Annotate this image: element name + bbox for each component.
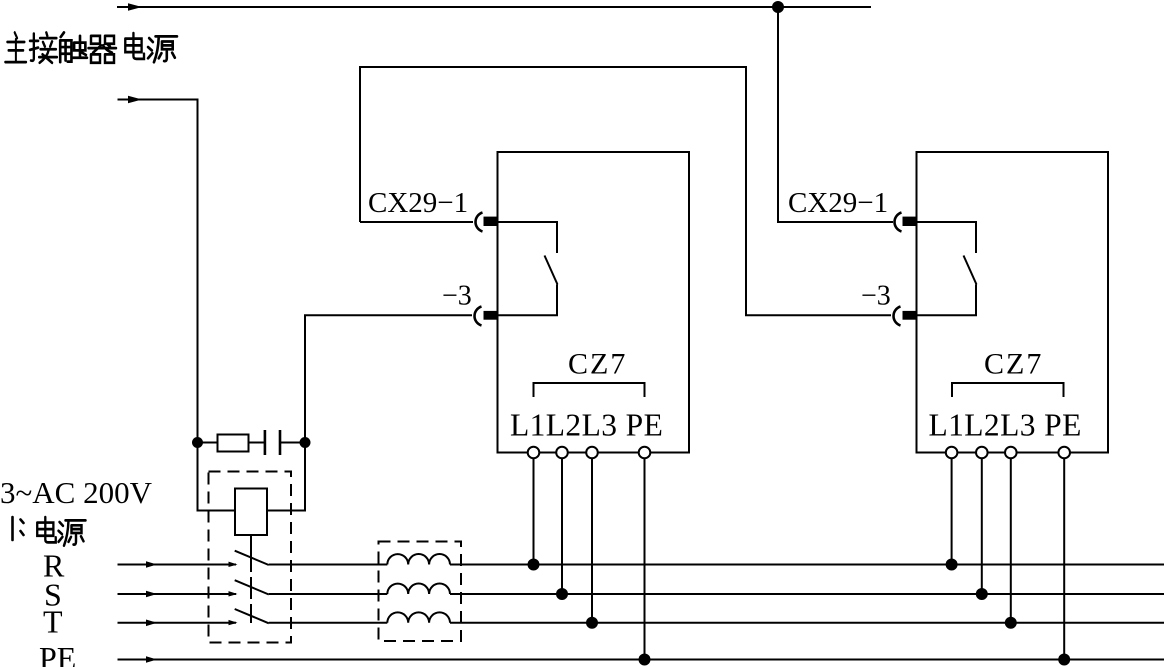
wire: unit2 L3 drop to T: [1010, 458, 1012, 623]
arrow on top control supply line: [128, 3, 142, 10]
contact blade S: [235, 580, 269, 594]
wire: unit2 PE drop to PE: [1063, 458, 1065, 659]
terminal circle L1 unit1: [528, 447, 540, 459]
unit 2 enclosure box: [917, 152, 1109, 453]
inductor T: [387, 612, 450, 622]
node: junction dot on top line: [772, 1, 784, 13]
terminal circle PE unit1: [639, 447, 651, 459]
svg-text:CZ7: CZ7: [984, 348, 1043, 381]
wire: second feed arrow line (to contactor coil branch): [118, 100, 198, 443]
wire: R phase right segment: [450, 564, 1164, 566]
terminal circle L3 unit2: [1005, 447, 1017, 459]
bracket over unit1 terminals: [534, 383, 645, 397]
wire: T between contactor and reactor: [269, 622, 388, 624]
terminal circle L2 unit2: [976, 447, 988, 459]
wire: unit2 internal bottom stub: [917, 285, 977, 316]
svg-text:3~AC 200V: 3~AC 200V: [0, 475, 153, 510]
inductor S: [387, 584, 450, 594]
wire: unit1 PE drop to PE: [644, 458, 646, 659]
capacitor plate right: [279, 430, 282, 455]
arrow feed T: [146, 620, 157, 627]
bracket over unit2 terminals: [952, 383, 1064, 397]
contact blade T: [235, 609, 269, 623]
connector pin (black) -3 unit1: [484, 311, 498, 320]
wire: unit1 L1 drop to R: [533, 458, 535, 564]
wire: capacitor to right dot: [280, 442, 305, 444]
wire: left branch down to coil: [198, 443, 236, 511]
unit 1 enclosure box: [498, 152, 690, 453]
wire: unit1 L2 drop to S: [561, 458, 563, 594]
connector socket bracket CX29-1 unit2: [895, 213, 902, 232]
wire: unit1 internal top stub: [498, 222, 558, 253]
wire: dot to resistor: [198, 442, 218, 444]
wire: R between contactor and reactor: [269, 564, 388, 566]
svg-text:CX29−1: CX29−1: [788, 187, 888, 219]
wire: T phase right segment: [450, 622, 1164, 624]
arrow feed S: [146, 591, 157, 598]
arrow contact R: [229, 562, 238, 567]
wire: S phase right segment: [450, 593, 1164, 595]
terminal circle PE unit2: [1058, 447, 1070, 459]
arrow contact T: [229, 620, 238, 625]
node dot unit1 L1-R: [528, 559, 540, 571]
node dot unit2 PE: [1058, 654, 1070, 666]
wire: resistor to capacitor: [249, 442, 265, 444]
svg-text:CZ7: CZ7: [568, 348, 627, 381]
arrow feed PE: [146, 656, 157, 663]
connector pin (black) -3 unit2: [903, 311, 917, 320]
inductor R: [387, 554, 450, 564]
node dot unit1 L2-S: [556, 588, 568, 600]
svg-text:CX29−1: CX29−1: [368, 187, 468, 219]
connector pin (black) CX29-1 unit1: [484, 217, 498, 226]
switch blade unit1: [545, 256, 558, 285]
arrow contact S: [229, 591, 238, 596]
wire: unit2 internal top stub: [917, 222, 977, 253]
arrow on second feed line: [128, 96, 142, 103]
wire: from top-line junction down to CX29-1 of right unit: [778, 7, 893, 222]
wire: S between contactor and reactor: [269, 593, 388, 595]
svg-text:PE: PE: [39, 640, 76, 667]
wire: R phase line left segment: [118, 564, 237, 566]
svg-text:T: T: [43, 604, 63, 640]
node dot unit2 L3-T: [1005, 617, 1017, 629]
mechanical linkage (dashed): [250, 550, 252, 623]
node dot RC right: [300, 437, 311, 448]
wire: -3 lead from contactor branch to unit1: [305, 315, 472, 442]
wire: T phase line left segment: [118, 622, 237, 624]
switch blade unit2: [964, 256, 977, 285]
connector socket bracket -3 unit1: [475, 307, 482, 326]
wire: coil bottom stub: [250, 535, 252, 550]
connector socket bracket -3 unit2: [894, 307, 901, 326]
contactor coil: [235, 489, 267, 536]
wire: unit1 internal bottom stub: [498, 285, 558, 316]
arrow feed R: [146, 561, 157, 568]
reactor dashed enclosure: [379, 542, 462, 642]
contact blade R: [235, 551, 269, 565]
svg-text:−3: −3: [861, 281, 891, 312]
terminal circle L3 unit1: [586, 447, 598, 459]
wire: S phase line left segment: [118, 593, 237, 595]
node dot unit1 PE: [639, 654, 651, 666]
wire: unit2 L1 drop to R: [951, 458, 953, 564]
svg-text:−3: −3: [442, 281, 472, 312]
label 主电源 (main power) hand-drawn glyphs, first char clipped: [13, 517, 86, 546]
connector socket bracket CX29-1 unit1: [476, 213, 483, 232]
contactor dashed enclosure: [209, 472, 292, 643]
node dot RC left: [192, 437, 203, 448]
wire: unit1 L3 drop to T: [591, 458, 593, 623]
label 主接触器电源 (main contactor power) : hand-drawn glyphs: [5, 33, 177, 63]
wire: unit2 L2 drop to S: [981, 458, 983, 594]
resistor (snubber): [218, 435, 249, 452]
svg-text:L1L2L3 PE: L1L2L3 PE: [510, 408, 663, 443]
node dot unit2 L1-R: [946, 559, 958, 571]
wire: top control supply line: [117, 6, 871, 8]
svg-text:L1L2L3 PE: L1L2L3 PE: [929, 408, 1082, 443]
connector pin (black) CX29-1 unit2: [903, 217, 917, 226]
wire: PE line: [118, 659, 1164, 661]
wire: interlock loop - top horizontal: [360, 67, 891, 315]
wire: right branch down to coil: [267, 443, 305, 511]
node dot unit1 L3-T: [586, 617, 598, 629]
terminal circle L1 unit2: [946, 447, 958, 459]
wire: CX29-1 lead into unit1 connector: [360, 221, 473, 223]
capacitor plate left: [264, 430, 267, 455]
terminal circle L2 unit1: [556, 447, 568, 459]
node dot unit2 L2-S: [976, 588, 988, 600]
